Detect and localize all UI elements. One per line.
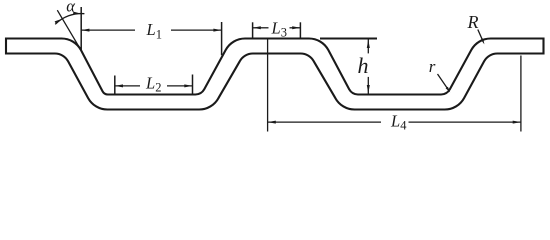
L3 right extension tick <box>299 22 301 39</box>
alpha vertical extension line <box>80 7 82 51</box>
L3 dimension line left part <box>253 27 269 29</box>
svg-text:R: R <box>467 12 479 32</box>
h dimension line lower part <box>367 77 369 94</box>
right end cap <box>542 38 544 55</box>
L4 dimension line left part <box>268 121 381 123</box>
L4 dimension line right part <box>409 121 521 123</box>
L4 right arrowhead <box>513 121 521 124</box>
L1 right extension line <box>221 22 223 55</box>
svg-text:h: h <box>358 53 369 78</box>
L2 dimension line right part <box>167 85 193 87</box>
svg-text:r: r <box>429 57 436 76</box>
r leader line <box>438 74 449 90</box>
R leader line <box>478 30 483 42</box>
svg-text:α: α <box>66 0 75 15</box>
R leader arrowhead <box>481 38 485 44</box>
alpha slant line (slope extension) <box>57 10 81 50</box>
left end cap <box>5 38 7 55</box>
alpha arc left arrowhead <box>55 19 63 24</box>
L2 right arrowhead <box>184 84 192 87</box>
L2 left extension tick <box>114 76 116 96</box>
L4 left extension line <box>267 39 269 131</box>
L1 dimension line left part <box>81 29 135 31</box>
L3 right arrowhead <box>292 26 300 29</box>
h bottom arrowhead <box>367 85 370 94</box>
L2 left arrowhead <box>115 84 123 87</box>
alpha angle arc <box>55 14 84 25</box>
r leader arrowhead <box>446 87 451 93</box>
alpha arc right arrowhead <box>73 12 81 15</box>
L1 left arrowhead <box>81 29 89 32</box>
L1 right arrowhead <box>213 29 221 32</box>
profile bottom surface line <box>6 53 544 109</box>
L4 left arrowhead <box>268 121 276 124</box>
L4 right extension line <box>520 56 522 132</box>
L3 left extension tick <box>252 22 254 39</box>
h dimension line upper part <box>367 40 369 54</box>
h top arrowhead <box>367 40 370 49</box>
L3 dimension line right part <box>290 27 301 29</box>
profile top surface line <box>6 39 544 95</box>
L2 dimension line left part <box>115 85 140 87</box>
L3 left arrowhead <box>253 26 261 29</box>
L1 dimension line right part <box>171 29 222 31</box>
h top reference line <box>320 38 377 40</box>
L2 right extension tick <box>192 75 194 96</box>
